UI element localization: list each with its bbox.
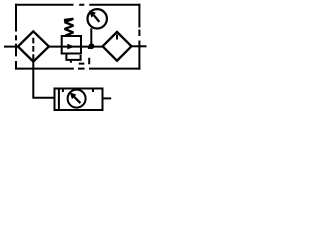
output port wire [131, 45, 147, 47]
main wire filter to lubricator through regulator [48, 46, 103, 48]
simplified unit box [55, 89, 103, 111]
gauge G1 needle [94, 15, 100, 22]
regulator R1 box [62, 36, 81, 54]
lubricator L1 diamond [103, 32, 132, 61]
enclosure right edge (dash-dot) [138, 4, 140, 70]
lubricator drip line [116, 35, 118, 40]
drain wire to simplified unit [33, 61, 54, 98]
input port wire [4, 46, 18, 48]
filter F1 diamond [18, 31, 49, 61]
enclosure top edge (dash-dot) [15, 4, 140, 6]
simplified gauge needle [74, 97, 80, 103]
regulator flow arrowhead [67, 44, 75, 50]
regulator pilot dashes [71, 47, 89, 65]
simplified unit frame tick right [92, 90, 94, 93]
simplified unit frame tick left [62, 90, 64, 93]
gauge stub wire [90, 28, 92, 45]
enclosure left edge (dash-dot) [15, 4, 17, 70]
simplified output wire [104, 97, 112, 99]
enclosure bottom edge (dash-dot) [15, 68, 140, 70]
simplified unit left bar [58, 89, 60, 111]
filter condensate dashed line [32, 38, 34, 61]
simplified gauge circle [68, 90, 86, 108]
pressure gauge G1 [88, 9, 107, 28]
regulator vent loop [66, 55, 80, 60]
regulator spring [64, 19, 74, 36]
junction dot [89, 43, 95, 49]
